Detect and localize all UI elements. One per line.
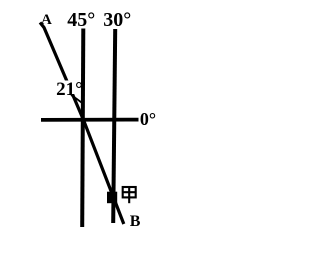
svg-text:45°: 45°	[67, 9, 95, 31]
surface line (0°)	[41, 118, 139, 122]
svg-text:0°: 0°	[140, 109, 156, 129]
svg-text:B: B	[130, 213, 141, 230]
point marker 甲 (square)	[107, 192, 117, 204]
ray A to B	[40, 23, 124, 225]
svg-text:21°: 21°	[56, 79, 83, 100]
svg-text:A: A	[41, 12, 52, 28]
svg-text:30°: 30°	[103, 9, 131, 31]
label 甲	[123, 186, 136, 203]
normal line N2 (30°)	[113, 29, 115, 223]
white backing of 21° label	[55, 81, 81, 95]
normal line N1 (45°)	[82, 29, 83, 228]
angle arc 21°	[71, 95, 82, 103]
